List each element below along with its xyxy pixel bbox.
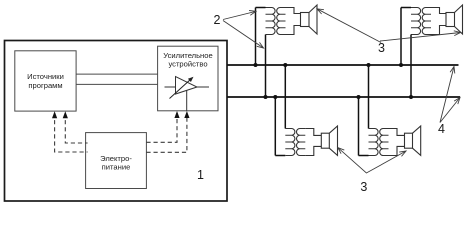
transformer TC primary winding bbox=[285, 129, 295, 156]
arrowhead power->amplifier outer bbox=[184, 111, 189, 118]
svg-text:3: 3 bbox=[360, 180, 367, 194]
loudspeaker TA horn bbox=[309, 5, 317, 34]
wire TB secondary leads bbox=[431, 8, 446, 35]
transformer TB primary winding bbox=[411, 8, 421, 35]
leader 3c (to speaker TC) bbox=[338, 148, 406, 173]
wire TD drop 2 (to L1) bbox=[368, 65, 370, 129]
junction TA-L2 bbox=[264, 95, 268, 99]
loudspeaker TD driver bbox=[405, 133, 413, 148]
wire: sources to amplifier (lower) bbox=[76, 83, 158, 85]
loudspeaker TA driver bbox=[301, 13, 310, 27]
junction TD-L1 bbox=[367, 63, 371, 67]
block: power supply (Электропитание) bbox=[86, 133, 147, 189]
junction TB-L2 bbox=[409, 95, 413, 99]
svg-text:программ: программ bbox=[28, 81, 62, 90]
transformer TD secondary winding bbox=[380, 129, 389, 156]
leader 2b (to drop wire 2) bbox=[223, 21, 264, 49]
svg-text:2: 2 bbox=[214, 13, 221, 27]
wire TA secondary leads bbox=[286, 8, 301, 35]
wire TB drop 2 (to L2) bbox=[410, 35, 412, 98]
dashed power wire to amplifier (outer) bbox=[146, 113, 187, 152]
wire TC primary bottom lead bbox=[275, 155, 285, 157]
leader 4b (to line L2) bbox=[440, 98, 460, 123]
wire TD drop 1 (to L2) bbox=[358, 97, 360, 156]
block: program sources (Источники программ) bbox=[15, 51, 76, 111]
loudspeaker TC driver bbox=[321, 133, 329, 148]
leader 2a (to drop wires corner) bbox=[223, 11, 256, 20]
transformer TA primary winding bbox=[266, 8, 276, 35]
loudspeaker TB horn bbox=[455, 5, 463, 34]
broadcast station block 1 (outer box) bbox=[5, 41, 228, 202]
arrowhead power->sources inner bbox=[63, 111, 68, 118]
leader 4a (to line L1) bbox=[440, 67, 455, 123]
junction TC-L1 bbox=[283, 63, 287, 67]
amplifier gain-adjust arrow bbox=[170, 77, 194, 99]
arrowhead power->amplifier inner bbox=[174, 111, 179, 118]
loudspeaker TB driver bbox=[446, 13, 455, 27]
junction TB-L1 bbox=[399, 63, 403, 67]
amplifier symbol triangle bbox=[176, 77, 198, 95]
wire TB drop 1 (to L1) bbox=[400, 8, 402, 66]
wire TC secondary leads bbox=[305, 129, 321, 156]
junction TD-L2 bbox=[357, 95, 361, 99]
broadcast line lower (net L2) bbox=[227, 96, 460, 98]
wire TD primary bottom lead bbox=[359, 155, 369, 157]
transformer TA secondary winding bbox=[277, 8, 286, 35]
svg-text:Источники: Источники bbox=[27, 72, 64, 81]
amplifier power pin wire bbox=[186, 90, 188, 111]
amplifier output line bbox=[197, 86, 209, 88]
svg-text:устройство: устройство bbox=[168, 60, 207, 69]
transformer TB secondary winding bbox=[422, 8, 431, 35]
svg-text:3: 3 bbox=[378, 41, 385, 55]
dashed power wire to amplifier (inner) bbox=[146, 113, 177, 142]
junction TC-L2 bbox=[273, 95, 277, 99]
wire TC drop 1 (to L2) bbox=[274, 97, 276, 156]
dashed power wire to sources (outer) bbox=[55, 113, 88, 152]
loudspeaker TD horn bbox=[413, 126, 421, 155]
transformer TC secondary winding bbox=[297, 129, 306, 156]
wire TA drop 1 (to L1) bbox=[255, 8, 257, 66]
wire TA drop 2 (to L2) bbox=[265, 35, 267, 98]
arrowhead power->sources outer bbox=[52, 111, 57, 118]
svg-text:1: 1 bbox=[197, 168, 204, 182]
wire TC drop 2 (to L1) bbox=[284, 65, 286, 129]
broadcast line upper (net L1) bbox=[227, 64, 459, 66]
dashed power wire to sources (inner) bbox=[65, 113, 87, 143]
amplifier input line bbox=[165, 86, 176, 88]
loudspeaker TC horn bbox=[329, 126, 337, 155]
leader 3a (to speaker TA) bbox=[317, 9, 381, 43]
wire TD secondary leads bbox=[389, 129, 405, 156]
junction TA-L1 bbox=[254, 63, 258, 67]
wire TA primary top lead bbox=[256, 7, 266, 9]
svg-text:питание: питание bbox=[102, 162, 131, 171]
wire TB primary top lead bbox=[401, 7, 411, 9]
transformer TD primary winding bbox=[369, 129, 379, 156]
block: amplifier (Усилительное устройство) bbox=[158, 46, 218, 111]
svg-text:4: 4 bbox=[438, 122, 445, 136]
leader 3b (to speaker TB) bbox=[380, 31, 461, 41]
wire: sources to amplifier (upper) bbox=[76, 73, 158, 75]
